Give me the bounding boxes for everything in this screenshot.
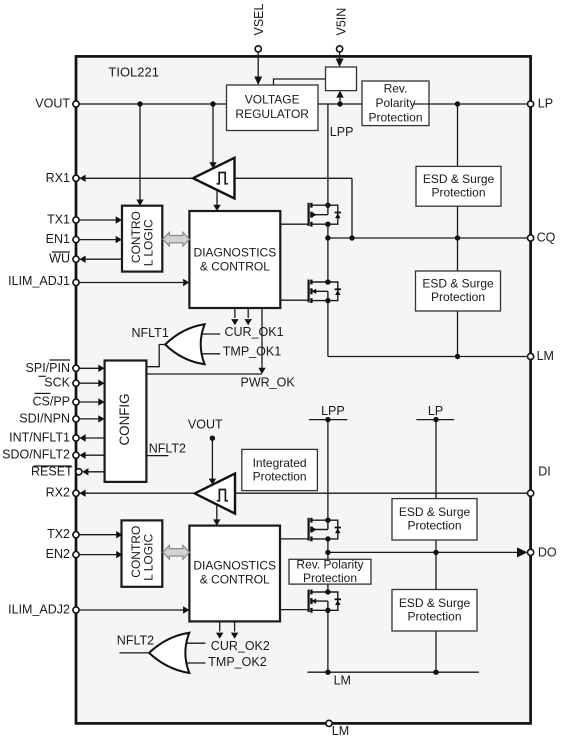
- svg-text:CUR_OK2: CUR_OK2: [211, 639, 270, 653]
- svg-text:CQ: CQ: [537, 231, 556, 245]
- svg-text:TIOL221: TIOL221: [108, 65, 159, 80]
- svg-text:TX1: TX1: [47, 213, 70, 227]
- svg-text:SPI/PIN: SPI/PIN: [26, 361, 70, 375]
- svg-text:Protection: Protection: [303, 571, 357, 585]
- svg-text:VSEL: VSEL: [252, 3, 266, 35]
- svg-text:CS/PP: CS/PP: [32, 395, 70, 409]
- svg-text:Protection: Protection: [431, 186, 485, 200]
- svg-text:Polarity: Polarity: [375, 96, 415, 110]
- svg-text:RX1: RX1: [46, 171, 70, 185]
- svg-text:CONFIG: CONFIG: [117, 393, 132, 445]
- svg-text:TMP_OK2: TMP_OK2: [208, 655, 266, 669]
- svg-text:SCK: SCK: [44, 376, 70, 390]
- svg-text:INT/NFLT1: INT/NFLT1: [9, 431, 70, 445]
- svg-text:DIAGNOSTICS: DIAGNOSTICS: [193, 559, 276, 573]
- svg-text:Rev. Polarity: Rev. Polarity: [296, 558, 363, 572]
- svg-text:SDI/NPN: SDI/NPN: [19, 411, 70, 425]
- svg-text:V5IN: V5IN: [335, 8, 349, 36]
- svg-text:REGULATOR: REGULATOR: [235, 107, 309, 121]
- svg-text:ESD & Surge: ESD & Surge: [423, 172, 495, 186]
- svg-text:Protection: Protection: [407, 609, 461, 623]
- svg-text:Protection: Protection: [407, 518, 461, 532]
- svg-text:EN2: EN2: [46, 547, 70, 561]
- svg-text:DO: DO: [538, 545, 557, 559]
- svg-text:LP: LP: [428, 404, 443, 418]
- svg-text:VOUT: VOUT: [188, 418, 223, 432]
- svg-text:RX2: RX2: [46, 486, 70, 500]
- svg-text:ESD & Surge: ESD & Surge: [399, 505, 471, 519]
- svg-text:Protection: Protection: [253, 470, 307, 484]
- svg-text:CUR_OK1: CUR_OK1: [225, 325, 284, 339]
- svg-text:NFLT1: NFLT1: [132, 326, 169, 340]
- svg-text:ESD & Surge: ESD & Surge: [422, 277, 494, 291]
- svg-text:& CONTROL: & CONTROL: [200, 260, 270, 274]
- svg-text:ILIM_ADJ2: ILIM_ADJ2: [8, 603, 70, 617]
- svg-text:WU: WU: [49, 252, 70, 266]
- svg-text:ILIM_ADJ1: ILIM_ADJ1: [8, 274, 70, 288]
- svg-text:LM: LM: [537, 349, 554, 363]
- svg-text:LPP: LPP: [330, 125, 354, 139]
- svg-text:DIAGNOSTICS: DIAGNOSTICS: [194, 245, 277, 259]
- svg-text:TMP_OK1: TMP_OK1: [223, 345, 281, 359]
- svg-text:Rev.: Rev.: [384, 81, 408, 95]
- svg-text:NFLT2: NFLT2: [149, 442, 186, 456]
- svg-text:& CONTROL: & CONTROL: [200, 573, 270, 587]
- svg-text:ESD & Surge: ESD & Surge: [399, 596, 471, 610]
- svg-text:NFLT2: NFLT2: [117, 634, 154, 648]
- svg-text:Integrated: Integrated: [253, 456, 307, 470]
- svg-text:VOLTAGE: VOLTAGE: [245, 92, 300, 106]
- svg-text:L LOGIC: L LOGIC: [141, 534, 155, 581]
- svg-text:PWR_OK: PWR_OK: [241, 376, 296, 390]
- svg-text:SDO/NFLT2: SDO/NFLT2: [2, 448, 70, 462]
- svg-text:VOUT: VOUT: [35, 97, 70, 111]
- svg-text:DI: DI: [538, 464, 551, 478]
- svg-text:Protection: Protection: [368, 110, 422, 124]
- svg-text:L LOGIC: L LOGIC: [141, 219, 155, 266]
- svg-text:EN1: EN1: [46, 232, 70, 246]
- svg-text:LM: LM: [334, 674, 351, 688]
- svg-text:LM: LM: [332, 724, 349, 738]
- svg-text:Protection: Protection: [431, 290, 485, 304]
- svg-text:LP: LP: [538, 97, 553, 111]
- svg-text:LPP: LPP: [321, 404, 345, 418]
- svg-text:TX2: TX2: [47, 527, 70, 541]
